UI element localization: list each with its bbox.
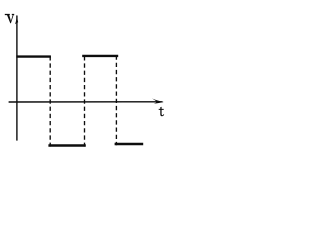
V axis arrowhead xyxy=(15,15,18,24)
V axis (vertical line) xyxy=(16,16,18,141)
t axis arrowhead xyxy=(152,98,164,103)
axis label V xyxy=(5,14,14,23)
t axis (horizontal line) xyxy=(9,101,163,103)
square wave low segment 2 xyxy=(115,143,144,145)
axis label t xyxy=(159,107,165,117)
square wave high segment 1 xyxy=(16,55,51,57)
dashed transition line 3 xyxy=(115,56,117,146)
dashed transition line 2 xyxy=(84,56,86,146)
square wave high segment 2 xyxy=(82,55,118,57)
dashed transition line 1 xyxy=(49,56,51,146)
square wave low segment 1 xyxy=(48,144,85,146)
